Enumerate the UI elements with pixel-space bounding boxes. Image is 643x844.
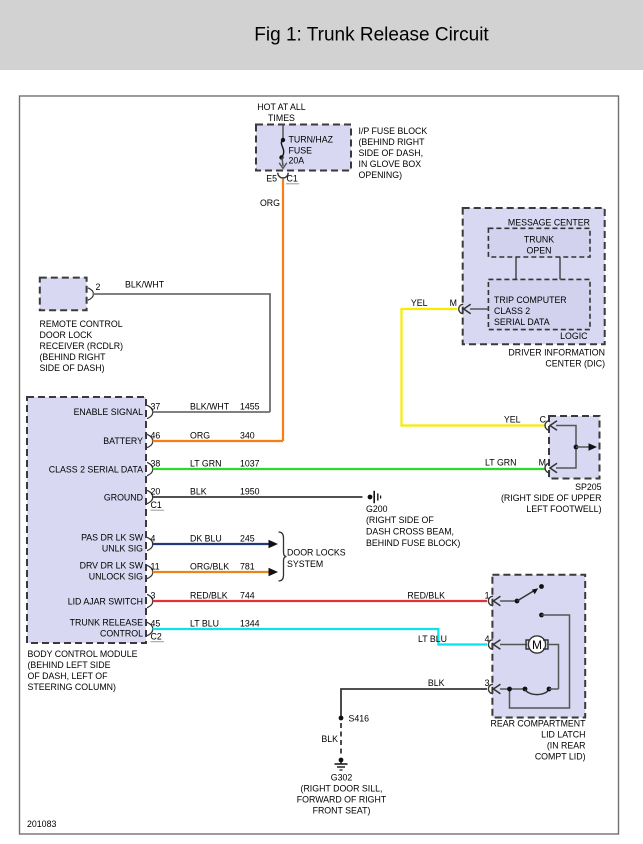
svg-text:SYSTEM: SYSTEM (287, 559, 323, 569)
svg-text:11: 11 (151, 562, 160, 572)
svg-text:BLK: BLK (321, 734, 338, 744)
svg-text:744: 744 (240, 591, 255, 601)
connector C on SP205 (504, 415, 557, 431)
svg-text:COMPT LID): COMPT LID) (535, 752, 586, 762)
svg-text:3: 3 (485, 678, 490, 688)
wire 3 RED/BLK 744 lid ajar switch (151, 591, 490, 602)
svg-text:OF DASH, LEFT OF: OF DASH, LEFT OF (28, 671, 109, 681)
svg-text:BLK/WHT: BLK/WHT (125, 280, 165, 290)
label I/P FUSE BLOCK location (359, 126, 428, 180)
svg-text:TIMES: TIMES (268, 113, 295, 123)
svg-text:C1: C1 (151, 500, 162, 510)
connector M on DIC with arrow (450, 298, 489, 314)
svg-text:(RIGHT SIDE OF UPPER: (RIGHT SIDE OF UPPER (501, 493, 602, 503)
svg-text:UNLOCK SIG: UNLOCK SIG (89, 572, 143, 582)
svg-text:UNLK SIG: UNLK SIG (102, 544, 143, 554)
svg-text:781: 781 (240, 562, 255, 572)
svg-text:GROUND: GROUND (104, 493, 143, 503)
wire BLK dashed to G302 (321, 723, 341, 756)
splice pack SP205 box (549, 416, 600, 479)
wire 38 LT GRN 1037 class 2 serial data (151, 458, 547, 470)
wires between trunk-open and trip-computer (516, 257, 560, 279)
switch contact to ground loop (510, 613, 570, 708)
label rear compartment lid latch (491, 719, 587, 762)
svg-text:BODY CONTROL MODULE: BODY CONTROL MODULE (28, 649, 138, 659)
svg-text:YEL: YEL (411, 298, 428, 308)
svg-text:DRV DR LK SW: DRV DR LK SW (80, 561, 144, 571)
svg-text:LOGIC: LOGIC (560, 331, 588, 341)
svg-text:3: 3 (151, 591, 156, 601)
label DRIVER INFORMATION CENTER (508, 348, 605, 369)
svg-text:TURN/HAZ: TURN/HAZ (289, 135, 334, 145)
connector E5 / C1 at fuse output (266, 173, 299, 184)
title banner (0, 0, 643, 70)
svg-text:G200: G200 (366, 504, 388, 514)
svg-text:DK BLU: DK BLU (190, 534, 222, 544)
svg-text:FUSE: FUSE (289, 146, 313, 156)
svg-text:37: 37 (151, 402, 161, 412)
RCDLR box (40, 278, 87, 311)
svg-text:S416: S416 (349, 714, 370, 724)
svg-text:OPENING): OPENING) (359, 170, 403, 180)
svg-text:LT GRN: LT GRN (190, 459, 221, 469)
fuse TURN/HAZ FUSE 20A (279, 125, 287, 169)
BCM pin connectors (147, 405, 153, 635)
svg-text:1344: 1344 (240, 619, 260, 629)
svg-text:45: 45 (151, 619, 161, 629)
svg-text:BLK: BLK (428, 678, 445, 688)
svg-text:E5: E5 (266, 174, 277, 184)
svg-text:RECEIVER (RCDLR): RECEIVER (RCDLR) (40, 341, 124, 351)
label SP205 location (501, 482, 602, 514)
svg-text:CLASS 2: CLASS 2 (494, 306, 530, 316)
connector M on SP205 (545, 463, 557, 472)
BCM pin labels (49, 407, 144, 639)
svg-text:OPEN: OPEN (527, 246, 552, 256)
svg-text:IN GLOVE BOX: IN GLOVE BOX (359, 159, 422, 169)
svg-text:LT BLU: LT BLU (190, 619, 219, 629)
label RCDLR location (40, 319, 124, 373)
svg-text:1037: 1037 (240, 459, 260, 469)
svg-text:CLASS 2 SERIAL DATA: CLASS 2 SERIAL DATA (49, 465, 143, 475)
svg-text:BLK/WHT: BLK/WHT (190, 402, 230, 412)
svg-text:(BEHIND RIGHT: (BEHIND RIGHT (359, 137, 426, 147)
svg-text:REAR COMPARTMENT: REAR COMPARTMENT (491, 719, 587, 729)
svg-text:LT GRN: LT GRN (485, 458, 516, 468)
svg-text:C: C (540, 415, 547, 425)
svg-text:(RIGHT SIDE OF: (RIGHT SIDE OF (366, 515, 434, 525)
wire YEL from DIC to SP205 (402, 298, 545, 426)
svg-text:DOOR LOCK: DOOR LOCK (40, 330, 93, 340)
svg-text:1455: 1455 (240, 402, 260, 412)
svg-text:C2: C2 (151, 632, 162, 642)
motor M inside latch (500, 636, 559, 689)
svg-text:340: 340 (240, 431, 255, 441)
svg-text:G302: G302 (331, 773, 353, 783)
lid ajar switch inside latch (500, 584, 544, 603)
svg-text:STEERING COLUMN): STEERING COLUMN) (28, 682, 117, 692)
svg-text:245: 245 (240, 534, 255, 544)
svg-text:CENTER (DIC): CENTER (DIC) (545, 359, 605, 369)
svg-text:Fig 1: Trunk Release Circuit: Fig 1: Trunk Release Circuit (254, 25, 489, 46)
wire 20 BLK 1950 ground (151, 487, 363, 498)
DIC outer box (463, 208, 605, 344)
svg-text:SIDE OF DASH,: SIDE OF DASH, (359, 148, 424, 158)
svg-text:FORWARD OF RIGHT: FORWARD OF RIGHT (297, 795, 387, 805)
svg-text:DRIVER INFORMATION: DRIVER INFORMATION (508, 348, 605, 358)
ground G200 (366, 491, 460, 548)
svg-text:FRONT SEAT): FRONT SEAT) (313, 806, 371, 816)
label HOT AT ALL TIMES (257, 102, 306, 123)
svg-text:1950: 1950 (240, 487, 260, 497)
I/P fuse block box (256, 125, 351, 171)
svg-text:20: 20 (151, 487, 161, 497)
wire BLK from latch pin 3 (341, 678, 490, 716)
TRUNK OPEN box (488, 228, 590, 257)
connector C2 label (151, 632, 165, 642)
svg-text:TRUNK RELEASE: TRUNK RELEASE (70, 618, 143, 628)
svg-text:RED/BLK: RED/BLK (190, 591, 228, 601)
svg-text:2: 2 (96, 282, 101, 292)
wire 37 BLK/WHT 1455 enable signal (151, 402, 271, 413)
fuse value label (289, 135, 334, 166)
svg-text:4: 4 (151, 534, 156, 544)
svg-text:HOT AT ALL: HOT AT ALL (257, 102, 306, 112)
svg-text:ORG/BLK: ORG/BLK (190, 562, 229, 572)
svg-text:BLK: BLK (190, 487, 207, 497)
svg-text:38: 38 (151, 459, 161, 469)
svg-text:REMOTE CONTROL: REMOTE CONTROL (40, 319, 123, 329)
svg-text:M: M (532, 638, 542, 652)
svg-text:DOOR LOCKS: DOOR LOCKS (287, 548, 346, 558)
svg-text:BEHIND FUSE BLOCK): BEHIND FUSE BLOCK) (366, 538, 460, 548)
connector pin 1 (488, 596, 500, 605)
label BCM location (28, 649, 138, 692)
wire 11 ORG/BLK 781 drv dr lk sw (151, 562, 279, 577)
svg-text:SERIAL DATA: SERIAL DATA (494, 317, 550, 327)
wire ORG vertical from fuse (260, 179, 283, 441)
svg-text:TRIP COMPUTER: TRIP COMPUTER (494, 295, 567, 305)
rear compartment lid latch box (492, 575, 585, 718)
connector pin 4 (488, 640, 500, 649)
svg-text:ENABLE SIGNAL: ENABLE SIGNAL (74, 407, 144, 417)
wire 46 ORG 340 battery (151, 431, 284, 442)
splice S416 (339, 714, 370, 724)
svg-text:BATTERY: BATTERY (103, 436, 143, 446)
svg-text:RED/BLK: RED/BLK (407, 591, 445, 601)
svg-text:TRUNK: TRUNK (524, 235, 554, 245)
SP205 internal bus with arrow (556, 426, 597, 469)
svg-text:C1: C1 (287, 174, 298, 184)
svg-text:46: 46 (151, 431, 161, 441)
svg-text:201083: 201083 (27, 819, 56, 829)
svg-text:(IN REAR: (IN REAR (547, 741, 586, 751)
svg-text:MESSAGE CENTER: MESSAGE CENTER (508, 218, 590, 228)
connector C1 label (151, 500, 165, 510)
wire BLK/WHT from RCDLR (93, 280, 271, 413)
latch ground path with arc (500, 687, 559, 695)
connector pin 3 (488, 684, 500, 693)
svg-text:(RIGHT DOOR SILL,: (RIGHT DOOR SILL, (301, 784, 383, 794)
body control module box (27, 397, 146, 643)
svg-text:I/P FUSE BLOCK: I/P FUSE BLOCK (359, 126, 428, 136)
connector pin 2 (88, 282, 101, 300)
svg-text:LID AJAR SWITCH: LID AJAR SWITCH (68, 597, 143, 607)
svg-text:CONTROL: CONTROL (100, 629, 143, 639)
svg-text:LT BLU: LT BLU (418, 634, 447, 644)
svg-text:ORG: ORG (260, 198, 280, 208)
TRIP COMPUTER box (488, 279, 590, 329)
svg-text:SP205: SP205 (575, 482, 602, 492)
wire 4 DK BLU 245 pas dr lk sw (151, 534, 279, 549)
svg-text:M: M (450, 298, 457, 308)
brace and label DOOR LOCKS SYSTEM (279, 532, 346, 581)
svg-text:LID LATCH: LID LATCH (541, 730, 585, 740)
svg-text:LEFT FOOTWELL): LEFT FOOTWELL) (526, 504, 601, 514)
svg-text:(BEHIND RIGHT: (BEHIND RIGHT (40, 352, 107, 362)
svg-text:ORG: ORG (190, 431, 210, 441)
svg-text:DASH CROSS BEAM,: DASH CROSS BEAM, (366, 527, 454, 537)
ground G302 (297, 758, 387, 816)
svg-text:PAS DR LK SW: PAS DR LK SW (81, 533, 144, 543)
wire 45 LT BLU 1344 trunk release control (151, 619, 490, 645)
svg-text:SIDE OF DASH): SIDE OF DASH) (40, 363, 105, 373)
svg-text:YEL: YEL (504, 415, 521, 425)
svg-text:(BEHIND LEFT SIDE: (BEHIND LEFT SIDE (28, 660, 111, 670)
svg-text:20A: 20A (289, 156, 305, 166)
